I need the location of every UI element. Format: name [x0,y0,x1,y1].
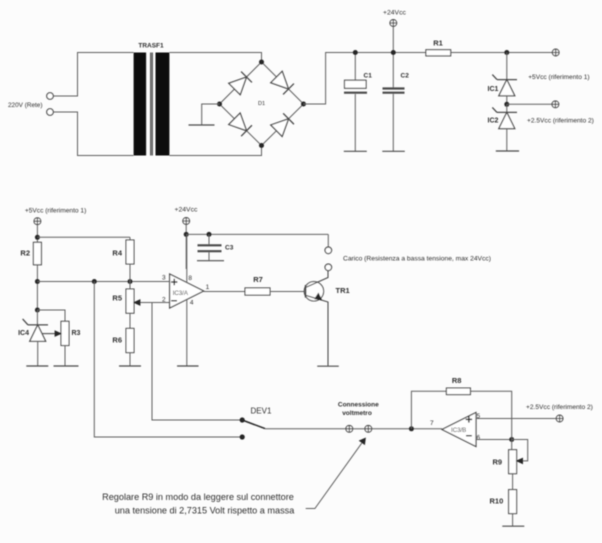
svg-text:IC1: IC1 [488,86,499,93]
svg-text:R8: R8 [452,376,462,385]
svg-text:IC4: IC4 [18,330,29,337]
svg-text:1: 1 [206,284,210,291]
svg-text:+2.5Vcc (riferimento 2): +2.5Vcc (riferimento 2) [526,404,593,411]
svg-text:2: 2 [162,297,166,304]
svg-text:220V (Rete): 220V (Rete) [8,102,42,109]
svg-text:DEV1: DEV1 [251,407,272,416]
svg-text:R5: R5 [112,294,122,303]
svg-text:4: 4 [190,300,194,307]
svg-text:3: 3 [162,275,166,282]
svg-text:R10: R10 [490,497,504,506]
svg-text:R9: R9 [493,458,503,467]
svg-text:C2: C2 [401,73,410,80]
svg-text:D1: D1 [258,101,265,107]
svg-text:IC3/B: IC3/B [451,427,466,434]
svg-text:Carico (Resistenza a bassa ten: Carico (Resistenza a bassa tensione, max… [343,255,491,262]
svg-text:R2: R2 [20,249,30,258]
svg-text:8: 8 [188,275,192,282]
svg-text:+5Vcc (riferimento 1): +5Vcc (riferimento 1) [528,74,589,81]
svg-text:+5Vcc (riferimento 1): +5Vcc (riferimento 1) [25,207,86,214]
svg-text:7: 7 [430,420,434,427]
svg-text:Regolare R9 in modo da leggere: Regolare R9 in modo da leggere sul conne… [102,492,294,502]
svg-text:IC2: IC2 [488,118,499,125]
svg-text:+24Vcc: +24Vcc [175,207,198,214]
svg-text:R6: R6 [112,336,122,345]
svg-text:R4: R4 [112,249,122,258]
svg-text:R1: R1 [433,39,443,48]
svg-text:Connessione: Connessione [338,402,379,409]
svg-text:R7: R7 [253,275,263,284]
svg-text:R3: R3 [72,330,81,337]
svg-text:+24Vcc: +24Vcc [383,10,406,17]
svg-text:6: 6 [477,435,481,442]
svg-text:voltmetro: voltmetro [342,410,372,417]
svg-text:TR1: TR1 [336,286,350,295]
svg-text:IC3/A: IC3/A [173,290,189,297]
svg-text:C3: C3 [225,245,234,252]
svg-text:una tensione di 2,7315 Volt ri: una tensione di 2,7315 Volt rispetto a m… [115,506,296,516]
svg-text:TRASF1: TRASF1 [138,43,164,50]
svg-text:+2.5Vcc (riferimento 2): +2.5Vcc (riferimento 2) [527,118,594,125]
svg-text:C1: C1 [364,73,373,80]
